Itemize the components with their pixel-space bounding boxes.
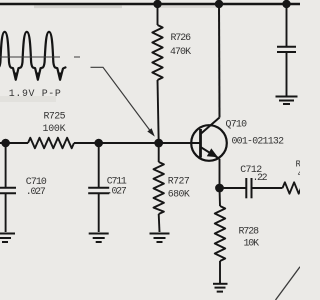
Q710 emitter arrowhead bbox=[207, 148, 218, 157]
node A dot (C710 tap) bbox=[1, 139, 10, 148]
wire left rail to R725 bbox=[0, 142, 28, 144]
node dot top of right capacitor bbox=[282, 0, 290, 8]
node dot top of R726 bbox=[153, 0, 161, 8]
wire node B to C711 bbox=[98, 143, 100, 187]
wire right capacitor to ground bbox=[286, 52, 288, 96]
wire C712 to edge resistor bbox=[252, 187, 283, 189]
svg-text:100K: 100K bbox=[43, 123, 66, 134]
resistor R726 zigzag bbox=[152, 25, 162, 80]
right capacitor plates bbox=[277, 46, 296, 48]
svg-text:10K: 10K bbox=[244, 237, 260, 248]
Q710 collector stroke bbox=[201, 118, 220, 135]
ground right capacitor bbox=[276, 97, 298, 105]
wire top rail to right capacitor bbox=[286, 4, 288, 46]
wire R725 to node B bbox=[74, 142, 99, 144]
svg-text:.027: .027 bbox=[107, 185, 127, 196]
node dot top of Q710 collector bbox=[215, 0, 223, 8]
wire R727 to ground bbox=[158, 214, 161, 232]
C710 plates bbox=[0, 187, 16, 189]
waveform axis dash bbox=[74, 56, 80, 58]
waveform 1.9V P-P bbox=[0, 32, 65, 80]
ground C710 bbox=[0, 234, 15, 243]
C711 plates bbox=[88, 187, 109, 189]
svg-text:R725: R725 bbox=[44, 111, 66, 122]
wire R728 to ground bbox=[219, 261, 221, 283]
wire node B to base node bbox=[99, 142, 159, 144]
Q710 emitter stroke bbox=[201, 147, 220, 159]
wire top rail to R726 bbox=[157, 4, 159, 25]
wire R726 to base node bbox=[158, 80, 159, 143]
Q710 body circle bbox=[191, 125, 227, 161]
ground C711 bbox=[89, 234, 109, 243]
diagonal lead-in line bottom right bbox=[276, 267, 301, 300]
node B dot (C711 tap) bbox=[94, 139, 103, 148]
node D dot (emitter node) bbox=[215, 184, 224, 193]
svg-text:001-021132: 001-021132 bbox=[232, 135, 285, 146]
wire emitter node to R728 bbox=[219, 188, 222, 206]
svg-text:47: 47 bbox=[298, 168, 301, 179]
svg-text:R727: R727 bbox=[168, 176, 190, 187]
waveform sync spikes (thick tips) bbox=[15, 73, 62, 81]
transistor Q710 bbox=[191, 118, 227, 161]
wire base node to Q710 base bbox=[159, 142, 201, 144]
waveform axis line bbox=[0, 56, 60, 58]
wire C710 to ground bbox=[5, 193, 7, 232]
svg-text:680K: 680K bbox=[168, 189, 190, 200]
wire emitter down to emitter node bbox=[219, 159, 221, 188]
svg-text:R728: R728 bbox=[239, 225, 260, 236]
capacitor C710 bbox=[0, 143, 16, 232]
wire emitter node to C712 bbox=[220, 187, 247, 189]
resistor at right edge (cut off) bbox=[283, 182, 302, 193]
capacitor C711 bbox=[88, 143, 109, 232]
wire collector to top rail bbox=[218, 4, 221, 118]
resistor R728 zigzag bbox=[215, 206, 225, 261]
svg-text:R726: R726 bbox=[171, 32, 192, 43]
wire base node to R727 bbox=[158, 143, 160, 162]
wire C711 to ground bbox=[98, 193, 100, 232]
svg-text:470K: 470K bbox=[170, 46, 191, 57]
scan smudge under top wire bbox=[34, 6, 122, 9]
capacitor C712 plates bbox=[246, 178, 251, 198]
wire top rail bbox=[0, 3, 300, 6]
Q710 base bar bbox=[199, 129, 202, 158]
node C dot (base node junction) bbox=[154, 139, 163, 148]
svg-text:Q710: Q710 bbox=[226, 119, 248, 130]
svg-text:1.9V P-P: 1.9V P-P bbox=[9, 88, 61, 99]
wire node A to C710 bbox=[5, 143, 7, 187]
pointer arrow from waveform to base node bbox=[91, 67, 155, 136]
svg-text:.027: .027 bbox=[26, 186, 46, 197]
resistor R725 zigzag bbox=[28, 138, 74, 149]
ground R728 bbox=[213, 284, 228, 292]
scan smudge left band bbox=[0, 96, 56, 102]
ground R727 bbox=[150, 234, 170, 243]
capacitor top right (unlabeled) bbox=[277, 4, 296, 96]
svg-text:.22: .22 bbox=[253, 172, 268, 183]
resistor R727 zigzag bbox=[154, 162, 164, 214]
